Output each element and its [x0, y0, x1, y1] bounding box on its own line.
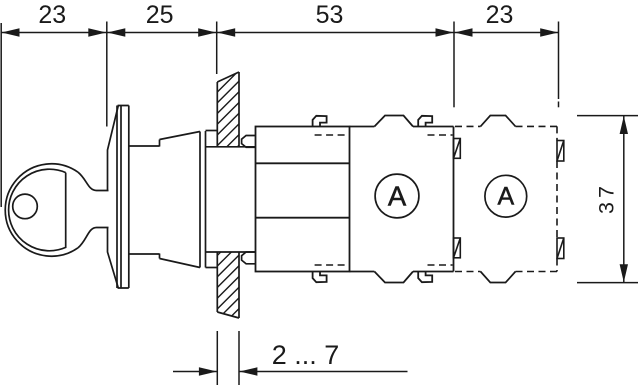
svg-text:23: 23 — [38, 1, 66, 29]
svg-text:A: A — [388, 181, 407, 212]
svg-text:25: 25 — [146, 1, 174, 29]
svg-text:23: 23 — [486, 1, 514, 29]
svg-text:53: 53 — [316, 1, 344, 29]
svg-text:A: A — [497, 182, 514, 210]
svg-text:2 ... 7: 2 ... 7 — [272, 340, 340, 370]
svg-text:37: 37 — [595, 182, 619, 214]
